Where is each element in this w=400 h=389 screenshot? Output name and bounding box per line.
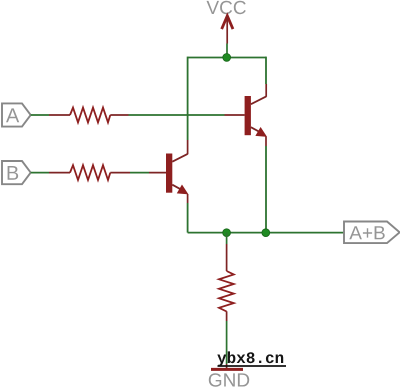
wire R2 to Q2 base bbox=[130, 172, 149, 174]
resistor R1 right pin bbox=[110, 114, 128, 116]
resistor R2 left pin bbox=[49, 172, 70, 174]
resistor R3 top pin bbox=[226, 244, 228, 271]
transistor Q2 bbox=[166, 154, 188, 194]
wire Q2 emitter to output rail bbox=[187, 203, 189, 233]
wire rail to R3 bbox=[226, 233, 228, 244]
wire Q1 base pin bbox=[225, 114, 245, 116]
watermark ybx8.cn bbox=[217, 351, 286, 366]
wire Q2 collector pin bbox=[187, 140, 189, 154]
wire Q1 emitter pin bbox=[265, 137, 267, 147]
wire Q2 base pin bbox=[149, 172, 166, 174]
resistor R2 right pin bbox=[110, 172, 130, 174]
node A input tag bbox=[2, 103, 31, 126]
node A+B output tag bbox=[344, 222, 400, 244]
resistor R3 bottom pin bbox=[226, 311, 228, 321]
wire Q2 emitter pin bbox=[187, 194, 189, 203]
node junction rail-R3 bbox=[223, 229, 231, 237]
wire B tag to R2 bbox=[31, 172, 49, 174]
wire A tag to R1 bbox=[31, 114, 49, 116]
resistor R1 left pin bbox=[49, 114, 70, 116]
wire R1 to Q1 base bbox=[129, 114, 225, 116]
supply VCC arrow symbol bbox=[222, 16, 232, 44]
wire R3 to ground bbox=[226, 321, 228, 364]
transistor Q1 bbox=[245, 96, 267, 136]
node junction at VCC bbox=[223, 54, 231, 62]
wire top rail left vertical bbox=[187, 57, 189, 140]
ground bbox=[209, 369, 249, 386]
resistor R1 bbox=[70, 108, 110, 123]
node B input tag bbox=[2, 161, 31, 184]
wire Q1 emitter to output rail bbox=[265, 146, 267, 233]
wire output rail horizontal bbox=[188, 232, 344, 234]
node junction rail-Q1 emitter bbox=[262, 229, 270, 237]
supply VCC label bbox=[207, 1, 246, 15]
ground pin bbox=[226, 364, 228, 369]
wire top rail right vertical bbox=[265, 57, 267, 84]
wire Q1 collector pin bbox=[265, 84, 267, 97]
resistor R2 bbox=[70, 165, 110, 180]
resistor R3 bbox=[219, 271, 234, 312]
wire VCC pin to top rail bbox=[226, 44, 228, 58]
wire top rail horizontal bbox=[188, 57, 266, 59]
